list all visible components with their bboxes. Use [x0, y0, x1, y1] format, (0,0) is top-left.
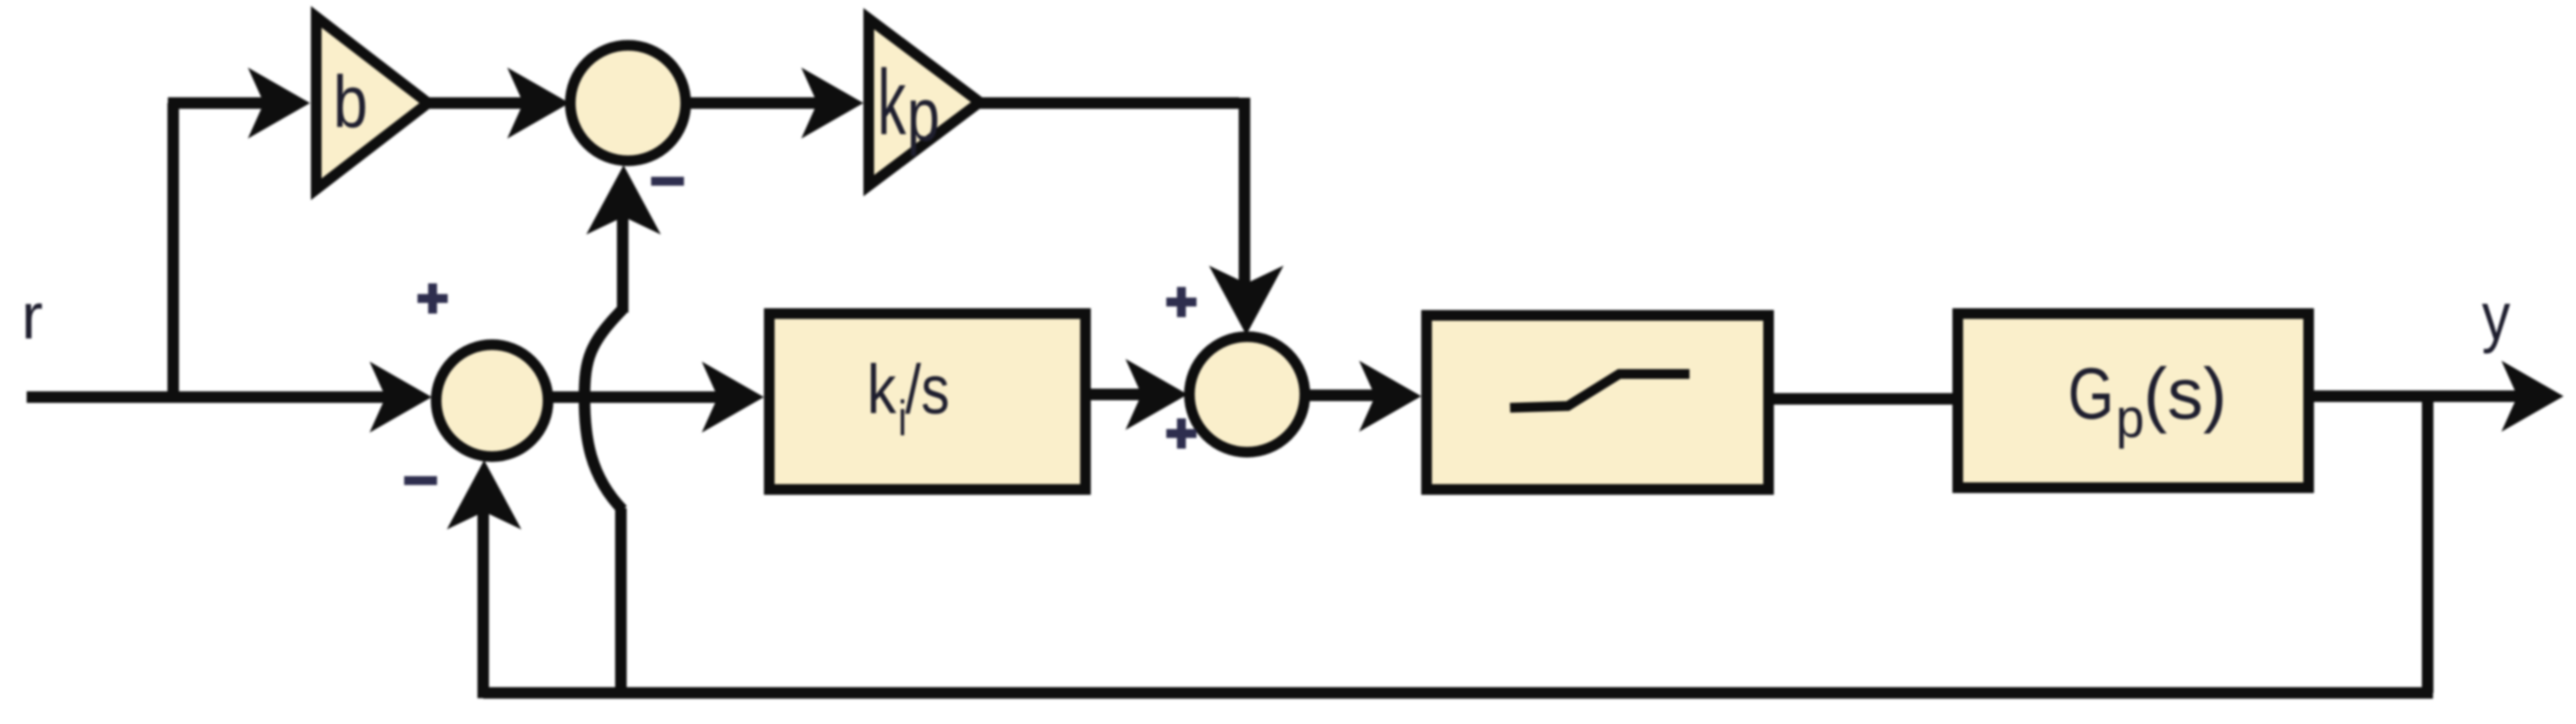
- svg-text:k: k: [878, 52, 907, 155]
- svg-text:/s: /s: [905, 350, 950, 428]
- svg-text:(s): (s): [2143, 354, 2227, 434]
- svg-text:k: k: [867, 350, 897, 428]
- svg-text:y: y: [2482, 279, 2510, 354]
- svg-text:p: p: [2116, 388, 2144, 450]
- svg-text:p: p: [907, 73, 940, 156]
- svg-text:G: G: [2068, 354, 2114, 434]
- svg-text:r: r: [21, 281, 43, 353]
- svg-text:b: b: [333, 60, 368, 143]
